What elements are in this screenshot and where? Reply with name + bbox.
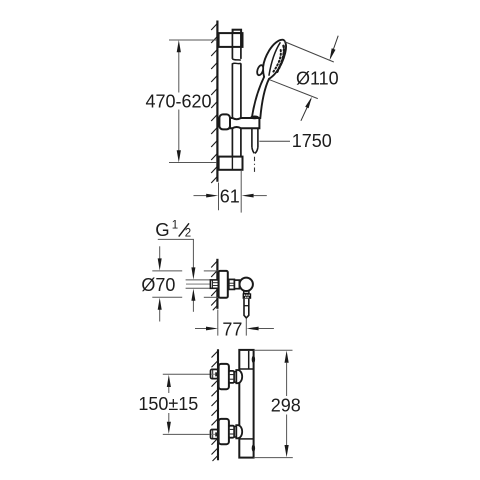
dim line lower (diameter 110) <box>270 80 318 99</box>
dim 298 arrows <box>285 351 289 363</box>
centerline <box>186 283 234 285</box>
wall line (union drawing) <box>216 259 218 309</box>
extension line top (470-620) <box>169 39 216 41</box>
hand shower button <box>256 64 264 76</box>
wall hatching (middle) <box>211 260 218 310</box>
hose continuation dash-dot <box>254 157 256 174</box>
bottom union: D-connector <box>236 425 242 438</box>
svg-text:G: G <box>155 219 169 240</box>
dim line upper (diameter 110) <box>284 42 334 63</box>
wall nipple G1/2 <box>210 280 218 288</box>
svg-text:150±15: 150±15 <box>138 394 198 414</box>
union collar B <box>234 280 239 289</box>
extension line (77 right) <box>245 319 247 336</box>
rail top cap <box>233 30 242 33</box>
rail (lower segment) <box>231 128 233 170</box>
G1/2 leader underline <box>158 238 194 240</box>
extension line (77 left) <box>217 310 219 336</box>
top union: escutcheon <box>219 364 229 389</box>
wall hatching (top) <box>211 23 218 184</box>
svg-text:Ø110: Ø110 <box>296 69 339 89</box>
extension line right (61) <box>240 170 242 212</box>
hose connector pipe <box>244 299 249 318</box>
top union: collar <box>234 372 236 383</box>
dimension line 470-620 <box>178 52 180 93</box>
arrow lower (diameter 110) <box>301 99 311 121</box>
centerline bottom union / 150 ext line <box>163 433 210 435</box>
dim arrows 77 <box>195 328 207 330</box>
bottom bracket <box>219 157 243 170</box>
body inner hline top <box>239 368 253 370</box>
holder body <box>230 118 259 128</box>
TOP-DRAWING <box>145 21 338 213</box>
bottom union: behind-wall nut <box>211 430 218 439</box>
dia70 extension lines <box>152 270 182 272</box>
MIDDLE-DRAWING <box>141 219 274 339</box>
svg-text:2: 2 <box>185 228 191 240</box>
G1/2 dim arrows <box>192 239 194 268</box>
body inner hline bottom <box>239 438 253 440</box>
nozzle dots row 2 <box>273 50 280 72</box>
svg-text:1750: 1750 <box>292 131 332 151</box>
298 extension line bottom <box>254 457 293 459</box>
dim 150 arrows <box>167 375 171 387</box>
nozzle dots row 1 <box>276 46 284 74</box>
svg-text:61: 61 <box>220 186 240 206</box>
spray face line <box>269 42 281 75</box>
thermostat body <box>239 350 253 458</box>
rail (middle segment) <box>231 63 233 118</box>
arrow up (470-620) <box>177 40 181 52</box>
dia70 dim arrows <box>159 246 161 259</box>
leader line 1750 <box>259 140 290 142</box>
svg-text:470-620: 470-620 <box>145 92 211 112</box>
BOTTOM-DRAWING <box>138 349 300 461</box>
arrow upper (diameter 110) <box>331 36 339 58</box>
top union: D-connector <box>236 370 242 383</box>
ball joint <box>240 278 253 291</box>
extension line bottom (470-620) <box>169 162 216 164</box>
svg-text:298: 298 <box>271 396 301 416</box>
bottom union: nut <box>229 426 234 438</box>
body boss bottom <box>252 444 255 451</box>
rail (upper segment) <box>231 33 233 59</box>
svg-text:1: 1 <box>172 219 178 231</box>
top bracket <box>219 33 243 47</box>
dim arrows 61 <box>194 195 208 197</box>
svg-text:Ø70: Ø70 <box>141 275 175 295</box>
rail break <box>232 59 241 60</box>
knurled hose nut <box>243 293 252 299</box>
holder knob <box>219 114 230 129</box>
bottom union: escutcheon <box>219 419 229 444</box>
wall line (thermostat drawing) <box>217 349 219 460</box>
wall flange dia70 <box>219 271 228 298</box>
hand shower outline (head + handle) <box>252 40 286 118</box>
union nut A <box>229 279 235 289</box>
svg-text:77: 77 <box>222 319 242 339</box>
outlet neck <box>244 290 249 294</box>
body boss top <box>252 356 255 363</box>
wall line (shower rail drawing) <box>216 21 218 182</box>
arrow down (470-620) <box>177 150 181 162</box>
centerline top union / 150 ext line <box>163 373 211 375</box>
wall hatching (bottom) <box>212 350 219 461</box>
extension line left (61) <box>218 183 220 211</box>
body inner vline <box>248 351 250 369</box>
hose <box>251 128 253 147</box>
bottom union: collar <box>234 426 236 437</box>
top union: nut <box>229 371 234 383</box>
top union: behind-wall nut <box>211 369 218 378</box>
298 extension line top <box>254 349 293 351</box>
G1/2 extension lines <box>186 279 211 281</box>
handle end cap <box>250 116 259 120</box>
